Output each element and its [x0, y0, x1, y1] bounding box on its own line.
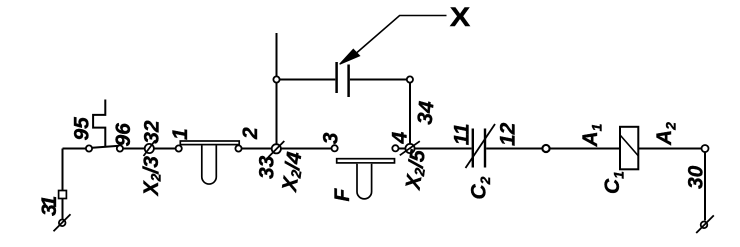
wire riser X2/4 node up to top line — [276, 33, 278, 149]
node terminal 4 — [392, 145, 398, 151]
wire segment 96 to terminal 1 — [123, 148, 178, 150]
svg-text:30: 30 — [685, 165, 708, 189]
svg-text:12: 12 — [497, 122, 520, 146]
fuse F loop — [357, 164, 372, 199]
junction X2/5 slashed circle — [405, 144, 414, 153]
capacitor X left plate — [335, 62, 338, 93]
capacitor C2 right plate — [484, 129, 486, 168]
svg-text:96: 96 — [112, 123, 135, 147]
leader arrowhead — [340, 49, 360, 64]
svg-text:34: 34 — [414, 100, 439, 126]
fuse 1-2 body bar — [180, 141, 239, 145]
connector X2/3 slashed circle (terminal 32) — [145, 144, 154, 153]
thermal switch blade 95-96 — [91, 146, 120, 148]
junction X2/4 slashed circle (terminal 33) — [272, 144, 281, 153]
wire riser to terminal 30 — [704, 149, 706, 221]
node right end — [702, 145, 709, 152]
node contact 96 — [117, 145, 123, 151]
thermal switch actuator (bimetal step) — [93, 100, 105, 147]
wire top line left of capacitor X — [277, 79, 336, 81]
svg-text:F: F — [331, 188, 354, 202]
node terminal 2 — [235, 145, 241, 151]
component C1 diagonal — [621, 136, 639, 156]
svg-text:33: 33 — [256, 155, 279, 179]
node terminal 1 — [176, 145, 182, 151]
svg-text:A1: A1 — [579, 123, 605, 147]
terminal 31 circle — [59, 220, 66, 227]
svg-text:X2/4: X2/4 — [278, 150, 307, 194]
component C1 box — [620, 127, 638, 170]
fuse 1-2 loop — [202, 146, 217, 185]
fuse F body bar — [337, 159, 395, 163]
wire segment terminal 2 to node 3 — [240, 148, 333, 150]
wire segment capacitor C2 to component C1 — [486, 148, 619, 150]
wire segment component C1 to node 30 riser — [639, 148, 706, 150]
wire main segment left (31 riser to contact 95) — [63, 148, 88, 150]
wire top line right of capacitor X — [350, 79, 410, 81]
node contact 95 — [86, 145, 92, 151]
wire segment node 4 to capacitor C2 — [397, 148, 472, 150]
svg-text:4: 4 — [389, 132, 412, 145]
terminal 30 circle — [701, 222, 708, 229]
svg-text:X: X — [450, 2, 471, 32]
capacitor X right plate — [347, 65, 350, 98]
svg-text:2: 2 — [239, 127, 262, 140]
wire 34 riser — [409, 80, 411, 149]
svg-text:C1: C1 — [601, 171, 627, 194]
svg-text:11: 11 — [451, 123, 474, 145]
terminal 31 slash — [54, 214, 71, 231]
svg-text:X2/3: X2/3 — [140, 156, 164, 197]
node terminal 3 — [332, 145, 338, 151]
svg-text:C2: C2 — [468, 176, 494, 199]
node top line right — [407, 76, 413, 82]
capacitor C2 slash — [466, 124, 496, 168]
wire riser to terminal 31 — [62, 149, 64, 191]
svg-text:1: 1 — [169, 128, 192, 140]
leader line to X — [357, 16, 447, 53]
node mid wire — [542, 145, 549, 152]
svg-text:X2/5: X2/5 — [402, 148, 431, 192]
node top line left — [273, 76, 279, 82]
svg-text:A2: A2 — [653, 122, 679, 146]
svg-text:32: 32 — [141, 120, 164, 144]
terminal 30 slash — [696, 215, 714, 233]
terminal square on 31 riser — [59, 191, 67, 199]
svg-text:95: 95 — [71, 117, 94, 141]
svg-text:31: 31 — [38, 196, 61, 216]
svg-text:3: 3 — [320, 132, 343, 144]
capacitor C2 left plate — [472, 129, 474, 168]
